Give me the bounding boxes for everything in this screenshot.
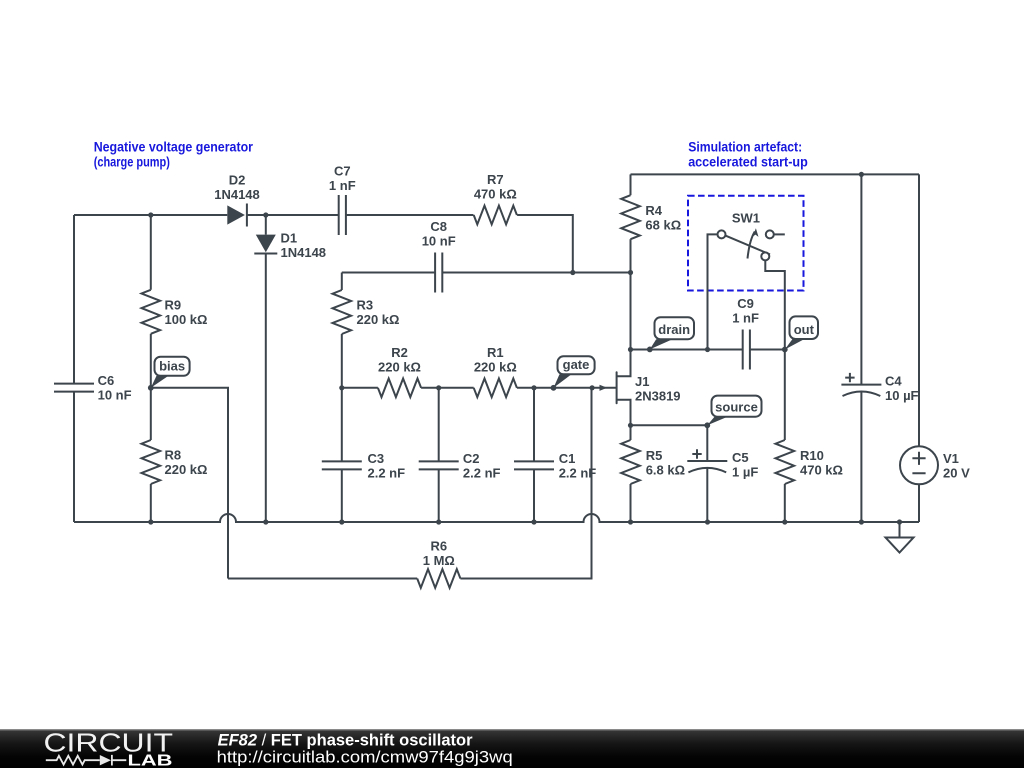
- voltage source V1: [900, 446, 970, 484]
- svg-text:R10: R10: [800, 448, 824, 463]
- capacitor C7: [329, 163, 356, 235]
- resistor R5: [621, 440, 685, 484]
- resistor R10: [776, 440, 843, 484]
- wire C6 bottom to ground rail: [73, 392, 75, 522]
- wire R3 leads: [341, 273, 343, 388]
- svg-text:220 kΩ: 220 kΩ: [378, 359, 421, 374]
- polarized capacitor C4: [841, 373, 918, 403]
- wire C4 top lead: [860, 174, 862, 384]
- svg-text:1 nF: 1 nF: [329, 178, 356, 193]
- wire drain row to C9: [631, 349, 743, 351]
- node gate: [551, 356, 595, 390]
- svg-text:Negative voltage generator: Negative voltage generator: [94, 139, 254, 154]
- svg-text:drain: drain: [658, 322, 690, 337]
- annotation: negative voltage generator (charge pump): [94, 139, 254, 169]
- wire left rail down (C6 branch): [73, 215, 75, 384]
- resistor R2: [378, 345, 421, 397]
- svg-text:100 kΩ: 100 kΩ: [165, 312, 208, 327]
- ground symbol: [886, 522, 914, 553]
- wire R8 bottom lead: [150, 484, 152, 522]
- svg-text:C2: C2: [463, 451, 480, 466]
- capacitor C2: [419, 451, 501, 481]
- wire R3 top to C8: [342, 272, 435, 274]
- capacitor C6: [54, 373, 132, 403]
- wire R9 top lead: [150, 215, 152, 290]
- wire bias to R6 drop: [151, 388, 228, 579]
- svg-text:10 nF: 10 nF: [422, 234, 456, 249]
- wire R8 top lead: [150, 388, 152, 440]
- wire R4 top lead: [630, 174, 632, 195]
- dashed highlight box around SW1: [688, 196, 804, 291]
- wire R6 row right and up to gate: [460, 388, 591, 579]
- wire R7 right then down to C8 row: [517, 215, 573, 273]
- resistor R6: [417, 539, 460, 588]
- svg-text:20 V: 20 V: [943, 465, 970, 480]
- wire D2 cathode to C7: [247, 214, 339, 216]
- wire top-left rail segment: [74, 214, 227, 216]
- svg-text:C7: C7: [334, 163, 351, 178]
- wire R5 top lead: [630, 425, 632, 440]
- wire R1 to JFET gate: [517, 387, 616, 389]
- svg-text:C1: C1: [559, 451, 576, 466]
- wire C3 bottom lead: [341, 469, 343, 522]
- svg-text:Simulation artefact:: Simulation artefact:: [688, 139, 802, 154]
- svg-text:2N3819: 2N3819: [635, 388, 681, 403]
- node drain: [647, 317, 694, 352]
- svg-text:LAB: LAB: [128, 752, 173, 768]
- svg-text:10 µF: 10 µF: [885, 388, 919, 403]
- diode D2: [214, 172, 260, 226]
- svg-text:R7: R7: [487, 172, 504, 187]
- wire R9 bottom lead to bias: [150, 334, 152, 388]
- resistor R1: [474, 345, 517, 397]
- wire R4 bottom to drain node: [630, 239, 632, 349]
- svg-text:C3: C3: [368, 451, 385, 466]
- svg-text:2.2 nF: 2.2 nF: [559, 466, 597, 481]
- wire R3 node to R2: [342, 387, 378, 389]
- svg-text:SW1: SW1: [732, 210, 760, 225]
- svg-text:2.2 nF: 2.2 nF: [368, 466, 406, 481]
- svg-text:C9: C9: [737, 296, 754, 311]
- annotation: simulation artefact accelerated start-up: [688, 139, 808, 169]
- wire V1 bottom lead: [918, 484, 920, 522]
- svg-text:D1: D1: [281, 231, 298, 246]
- CircuitLab logo: [44, 728, 174, 768]
- wire R2 to R1: [421, 387, 474, 389]
- svg-text:source: source: [715, 400, 758, 415]
- wire R5 bottom lead: [630, 484, 632, 522]
- resistor R4: [621, 195, 681, 239]
- node out: [782, 316, 818, 352]
- svg-text:470 kΩ: 470 kΩ: [474, 186, 517, 201]
- svg-text:R1: R1: [487, 345, 504, 360]
- node bias: [148, 357, 190, 391]
- capacitor C3: [322, 451, 405, 481]
- svg-text:6.8 kΩ: 6.8 kΩ: [646, 463, 685, 478]
- wire R10 top lead: [784, 350, 786, 441]
- svg-text:R6: R6: [430, 539, 447, 554]
- resistor R3: [333, 290, 400, 334]
- svg-text:470 kΩ: 470 kΩ: [800, 463, 843, 478]
- svg-text:C6: C6: [98, 373, 115, 388]
- JFET transistor J1 (2N3819): [600, 372, 681, 403]
- svg-text:C4: C4: [885, 373, 902, 388]
- svg-text:R8: R8: [165, 448, 182, 463]
- wire ground rail with hops: [74, 514, 919, 522]
- wire C5 bottom lead: [706, 468, 708, 522]
- svg-text:220 kΩ: 220 kΩ: [474, 359, 517, 374]
- capacitor C9: [732, 296, 759, 369]
- wire C3 top lead: [341, 388, 343, 462]
- wire C7 to R7: [346, 214, 474, 216]
- svg-text:1 nF: 1 nF: [732, 311, 759, 326]
- wire C8 to R4 column: [442, 272, 630, 274]
- wire C1 bottom lead: [533, 469, 535, 522]
- svg-text:1 MΩ: 1 MΩ: [423, 553, 455, 568]
- svg-text:bias: bias: [159, 359, 185, 374]
- svg-text:gate: gate: [563, 357, 590, 372]
- wire switch pole down to drain row: [708, 234, 718, 349]
- wire source row to C5: [631, 424, 708, 426]
- wire C1 top lead: [533, 388, 535, 462]
- capacitor C8: [422, 219, 456, 292]
- wire C9 to out node: [750, 349, 785, 351]
- svg-text:D2: D2: [229, 172, 246, 187]
- svg-text:R5: R5: [646, 448, 663, 463]
- svg-text:http://circuitlab.com/cmw97f4g: http://circuitlab.com/cmw97f4g9j3wq: [217, 747, 513, 766]
- svg-text:R4: R4: [645, 203, 662, 218]
- svg-text:R2: R2: [391, 345, 408, 360]
- wire R10 bottom lead: [784, 484, 786, 522]
- wire R6 row left: [228, 578, 417, 580]
- wire C4 bottom lead: [860, 391, 862, 522]
- svg-text:1N4148: 1N4148: [214, 187, 260, 202]
- wire top supply rail: [631, 173, 920, 175]
- svg-text:68 kΩ: 68 kΩ: [645, 217, 681, 232]
- wire D1 anode from top rail: [265, 215, 267, 235]
- svg-text:10 nF: 10 nF: [98, 388, 132, 403]
- svg-text:V1: V1: [943, 451, 959, 466]
- svg-text:J1: J1: [635, 374, 649, 389]
- node source: [704, 396, 761, 429]
- wire switch throw down to out node: [765, 260, 785, 349]
- wire C5 top lead: [706, 425, 708, 461]
- polarized capacitor C5: [687, 449, 758, 479]
- resistor R7: [474, 172, 517, 224]
- switch SW1: [718, 210, 785, 260]
- svg-text:1N4148: 1N4148: [281, 245, 327, 260]
- footer title: [217, 732, 513, 767]
- svg-text:1 µF: 1 µF: [732, 465, 758, 480]
- svg-text:2.2 nF: 2.2 nF: [463, 466, 501, 481]
- wire J1 drain lead: [617, 350, 631, 377]
- wire C2 top lead: [438, 388, 440, 462]
- wire J1 source lead: [617, 400, 631, 426]
- svg-text:(charge pump): (charge pump): [94, 155, 170, 170]
- wire V1 top lead: [918, 174, 920, 446]
- svg-text:R3: R3: [357, 298, 374, 313]
- svg-text:220 kΩ: 220 kΩ: [165, 462, 208, 477]
- svg-text:R9: R9: [165, 297, 182, 312]
- svg-text:accelerated start-up: accelerated start-up: [688, 155, 808, 170]
- wire C2 bottom lead: [438, 469, 440, 522]
- resistor R8: [142, 440, 208, 484]
- svg-text:C8: C8: [430, 219, 447, 234]
- diode D1: [254, 231, 326, 261]
- svg-text:C5: C5: [732, 450, 749, 465]
- wire D1 cathode to ground rail: [265, 254, 267, 523]
- resistor R9: [142, 290, 208, 334]
- svg-text:out: out: [794, 322, 815, 337]
- svg-text:220 kΩ: 220 kΩ: [357, 312, 400, 327]
- capacitor C1: [514, 451, 596, 481]
